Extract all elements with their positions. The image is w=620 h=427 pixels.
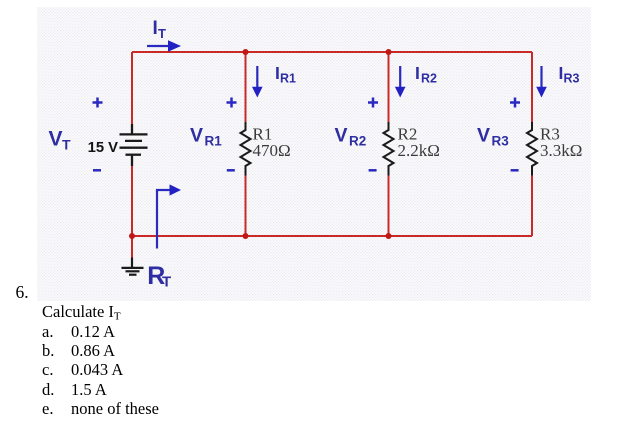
svg-text:V: V bbox=[477, 125, 490, 147]
svg-text:R1: R1 bbox=[205, 134, 223, 149]
svg-text:R1: R1 bbox=[280, 72, 296, 86]
svg-text:T: T bbox=[162, 274, 171, 291]
svg-text:I: I bbox=[153, 18, 158, 39]
svg-text:I: I bbox=[415, 63, 420, 83]
svg-text:V: V bbox=[335, 125, 348, 147]
svg-text:R2: R2 bbox=[421, 72, 437, 86]
svg-text:R2: R2 bbox=[349, 134, 366, 149]
svg-text:15 V: 15 V bbox=[88, 140, 119, 156]
svg-text:T: T bbox=[158, 26, 166, 41]
svg-text:R3: R3 bbox=[564, 72, 580, 86]
svg-text:V: V bbox=[190, 125, 203, 147]
svg-text:2.2kΩ: 2.2kΩ bbox=[398, 141, 440, 160]
svg-text:3.3kΩ: 3.3kΩ bbox=[540, 141, 582, 160]
svg-text:V: V bbox=[49, 128, 63, 151]
svg-text:R3: R3 bbox=[492, 134, 510, 149]
svg-text:T: T bbox=[62, 137, 71, 153]
svg-text:470Ω: 470Ω bbox=[253, 141, 291, 160]
